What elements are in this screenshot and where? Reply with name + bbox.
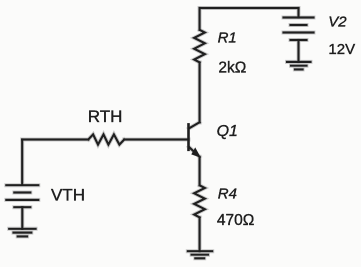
wire top horizontal from R1 to V2 xyxy=(200,7,299,9)
battery V2 plate long bottom xyxy=(284,31,314,33)
transistor Q1 emitter diagonal xyxy=(189,147,200,157)
ground at bottom of R4 xyxy=(188,251,212,258)
wire R1 bottom lead to Q1 collector xyxy=(199,62,201,122)
battery VTH plate short xyxy=(14,191,30,193)
ground under VTH xyxy=(9,229,35,237)
wire left horizontal to corner xyxy=(22,138,88,140)
wire R1 top lead xyxy=(199,8,201,30)
ground under V2 xyxy=(287,62,311,70)
wire left vertical down to VTH xyxy=(21,140,23,185)
wire V2 top stub xyxy=(297,8,299,18)
resistor R1 xyxy=(194,30,205,63)
transistor Q1 emitter arrowhead xyxy=(192,148,200,157)
resistor RTH xyxy=(88,134,124,144)
wire VTH bottom lead xyxy=(21,207,23,229)
wire Q1 emitter to R4 xyxy=(199,157,201,186)
wire R4 bottom lead xyxy=(199,217,201,251)
resistor R4 xyxy=(194,185,205,217)
wire V2 bottom lead xyxy=(297,40,299,62)
battery VTH plate long bottom xyxy=(6,199,38,201)
battery V2 plate long top xyxy=(284,16,314,18)
wire base from RTH to Q1 xyxy=(124,138,188,140)
battery V2 plate short bottom xyxy=(291,39,307,41)
transistor Q1 collector diagonal xyxy=(189,122,200,128)
battery V2 plate short xyxy=(291,24,307,26)
transistor Q1 base bar xyxy=(187,124,190,149)
battery VTH plate long top xyxy=(6,184,38,186)
battery VTH plate short bottom xyxy=(14,206,30,208)
